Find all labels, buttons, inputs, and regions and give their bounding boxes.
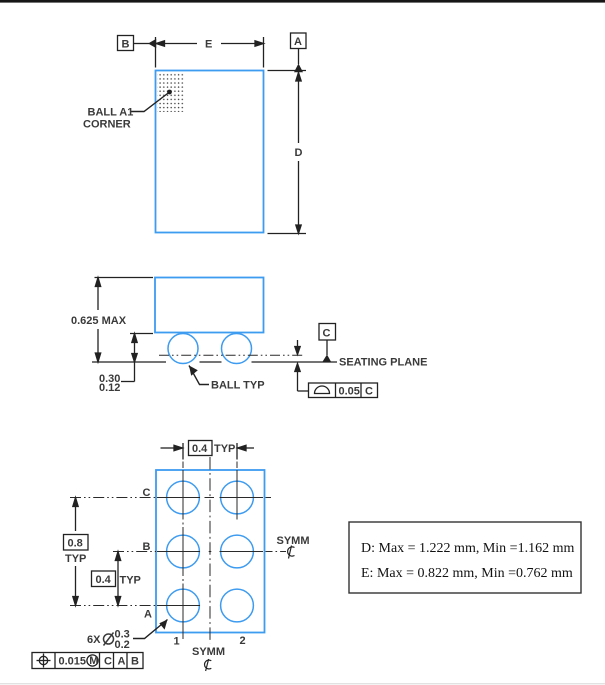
svg-text:E: E	[205, 39, 212, 51]
column 2 centerline	[236, 462, 238, 469]
seating plane line	[92, 361, 337, 363]
column 1 centerline	[182, 462, 184, 469]
svg-text:SYMM: SYMM	[277, 535, 310, 547]
svg-text:0.625 MAX: 0.625 MAX	[71, 315, 127, 327]
ball A1 leader dot	[167, 90, 172, 95]
svg-text:0.4: 0.4	[96, 574, 112, 586]
svg-text:C: C	[104, 656, 112, 668]
page top rule	[0, 0, 605, 3]
package body (side view)	[155, 278, 264, 333]
dimension 0.625 MAX	[95, 278, 154, 363]
svg-text:0.015: 0.015	[59, 656, 87, 668]
row C centerline	[70, 497, 156, 499]
dimension 0.8 TYP (left, rows A-C)	[73, 498, 78, 606]
dimension 0.4 TYP (left, rows A-B)	[115, 552, 120, 606]
ball (side) 2	[222, 334, 252, 364]
svg-text:A: A	[294, 36, 302, 48]
ball (side) 1	[168, 334, 198, 364]
leader BALL TYP	[189, 366, 209, 385]
svg-text:E: Max = 0.822 mm, Min =0.762: E: Max = 0.822 mm, Min =0.762 mm	[361, 566, 573, 581]
position tolerance frame	[32, 653, 143, 669]
page bottom rule	[0, 683, 605, 684]
diameter symbol	[104, 633, 114, 646]
middle SYMM centerline	[209, 457, 211, 644]
svg-text:M: M	[89, 655, 98, 667]
M circle	[87, 655, 98, 666]
ball A1 corner stipple area	[157, 73, 185, 112]
svg-text:B: B	[122, 39, 130, 51]
balls 2x3	[167, 481, 254, 622]
svg-text:D: D	[295, 147, 303, 159]
flatness frame 0.05 C	[309, 383, 378, 398]
dimension 0.30/0.12	[121, 334, 153, 382]
svg-text:D: Max = 1.222 mm, Min =1.162: D: Max = 1.222 mm, Min =1.162 mm	[361, 541, 574, 556]
centerlines	[70, 457, 286, 644]
dimension D	[268, 71, 307, 234]
svg-text:0.4: 0.4	[192, 443, 208, 455]
svg-text:BALL A1: BALL A1	[88, 107, 134, 119]
svg-text:6X: 6X	[87, 634, 101, 646]
position symbol	[39, 656, 47, 664]
svg-text:B: B	[143, 541, 151, 553]
svg-text:A: A	[118, 656, 126, 668]
row B centerline	[113, 551, 156, 553]
svg-text:TYP: TYP	[65, 553, 86, 565]
svg-text:1: 1	[174, 636, 180, 648]
tolerance zone arrows	[295, 340, 309, 391]
svg-text:BALL TYP: BALL TYP	[211, 380, 265, 392]
svg-text:C: C	[323, 328, 331, 340]
svg-text:C: C	[365, 386, 373, 398]
svg-text:SYMM: SYMM	[192, 646, 225, 658]
svg-text:2: 2	[240, 635, 246, 647]
svg-text:CORNER: CORNER	[83, 119, 131, 131]
svg-text:0.2: 0.2	[115, 639, 130, 651]
dimension 0.4 TYP (top, columns)	[161, 443, 255, 460]
ball centerline (dash-dot)	[159, 354, 303, 356]
leader 6X	[133, 620, 168, 639]
svg-text:0.8: 0.8	[68, 538, 83, 550]
datum A	[291, 33, 307, 64]
svg-text:TYP: TYP	[120, 575, 141, 587]
package outline (bottom view)	[156, 470, 265, 633]
centerline glyph bottom	[205, 659, 212, 671]
datum B	[118, 36, 150, 51]
centerline glyph right	[288, 546, 295, 559]
dimension E	[156, 37, 264, 68]
svg-text:TYP: TYP	[214, 443, 235, 455]
svg-text:A: A	[144, 609, 152, 621]
svg-text:C: C	[143, 487, 151, 499]
svg-text:0.12: 0.12	[99, 382, 120, 394]
svg-text:B: B	[131, 656, 139, 668]
package body outline (top view)	[156, 71, 264, 233]
datum C	[319, 324, 336, 356]
svg-text:0.05: 0.05	[339, 386, 360, 398]
svg-text:SEATING PLANE: SEATING PLANE	[339, 357, 427, 369]
wire: leader BALL A1 CORNER	[131, 92, 170, 112]
row A centerline	[70, 605, 156, 607]
